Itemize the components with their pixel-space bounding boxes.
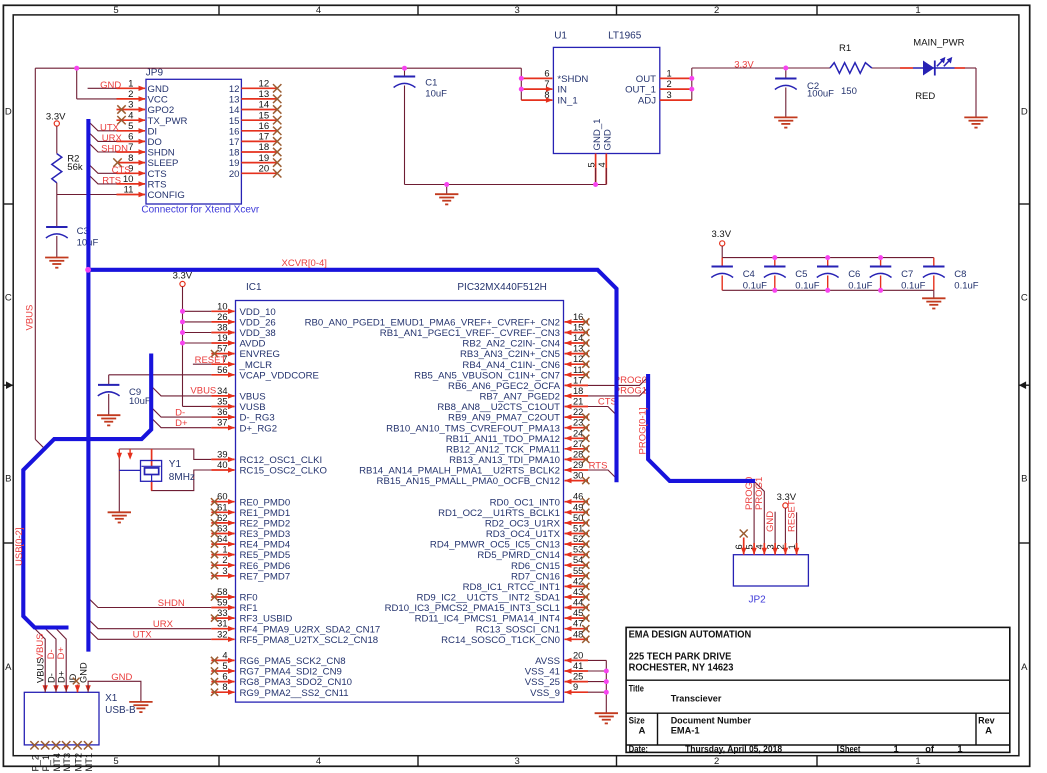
svg-text:56: 56 [217,365,227,375]
svg-text:59: 59 [217,598,227,608]
svg-text:2: 2 [714,756,719,767]
svg-text:RTS: RTS [102,176,121,187]
svg-text:1: 1 [667,68,672,78]
svg-text:RG7_PMA4_SDI2_CN9: RG7_PMA4_SDI2_CN9 [240,667,342,678]
svg-text:RD3_OC4_U1TX: RD3_OC4_U1TX [486,529,561,540]
svg-text:P_2: P_2 [30,755,40,772]
svg-text:34: 34 [217,386,227,396]
svg-text:6: 6 [222,672,227,682]
svg-text:3.3V: 3.3V [734,60,754,71]
svg-text:RF3_USBID: RF3_USBID [240,614,293,625]
svg-text:RC13_SOSCI_CN1: RC13_SOSCI_CN1 [476,624,560,635]
svg-text:11: 11 [573,365,583,375]
svg-text:RB8_AN8__U2CTS_C1OUT: RB8_AN8__U2CTS_C1OUT [437,402,560,413]
svg-text:5: 5 [744,544,754,549]
svg-text:15: 15 [573,323,583,333]
svg-text:RB11_AN11_TDO_PMA12: RB11_AN11_TDO_PMA12 [446,434,560,445]
svg-text:TX_PWR: TX_PWR [148,116,188,127]
svg-text:RE4_PMD4: RE4_PMD4 [240,540,291,551]
svg-text:C1: C1 [425,78,437,89]
svg-text:PROG0: PROG0 [614,375,647,386]
svg-text:OUT_1: OUT_1 [625,85,656,96]
svg-text:AVDD: AVDD [240,339,266,350]
svg-text:IC1: IC1 [246,282,262,293]
svg-text:0.1uF: 0.1uF [743,281,767,292]
svg-text:43: 43 [573,587,583,597]
svg-text:RE1_PMD1: RE1_PMD1 [240,508,291,519]
svg-text:RC12_OSC1_CLKI: RC12_OSC1_CLKI [240,455,323,466]
svg-text:54: 54 [573,555,583,565]
svg-text:RB4_AN4_C1IN-_CN6: RB4_AN4_C1IN-_CN6 [462,360,560,371]
svg-text:URX: URX [102,133,123,144]
svg-text:20: 20 [259,164,270,175]
svg-text:RD1_OC2__U1RTS_BCLK1: RD1_OC2__U1RTS_BCLK1 [438,508,560,519]
svg-text:40: 40 [217,460,227,470]
svg-text:P_1: P_1 [41,755,51,772]
svg-text:28: 28 [573,449,583,459]
svg-text:RD5_PMRD_CN14: RD5_PMRD_CN14 [477,550,560,561]
svg-text:RB14_AN14_PMALH_PMA1__U2RTS_BC: RB14_AN14_PMALH_PMA1__U2RTS_BCLK2 [359,466,560,477]
svg-text:PROG[0-1]: PROG[0-1] [637,408,648,455]
svg-text:URX: URX [153,619,174,630]
svg-text:RB12_AN12_TCK_PMA11: RB12_AN12_TCK_PMA11 [446,444,560,455]
svg-text:D-: D- [46,673,56,683]
svg-text:4: 4 [597,162,607,167]
svg-text:Thursday, April 05, 2018: Thursday, April 05, 2018 [685,744,782,754]
svg-text:VUSB: VUSB [240,402,266,413]
svg-text:MT3: MT3 [62,753,72,772]
svg-text:VBUS: VBUS [35,633,46,659]
svg-text:D-_RG3: D-_RG3 [240,413,275,424]
svg-text:DI: DI [148,126,158,137]
svg-text:VBUS: VBUS [190,386,216,397]
svg-text:3.3V: 3.3V [46,111,66,122]
svg-text:5: 5 [113,5,118,16]
svg-text:2: 2 [667,79,672,89]
svg-text:MAIN_PWR: MAIN_PWR [913,38,964,49]
svg-text:JP2: JP2 [749,594,767,605]
svg-text:62: 62 [217,513,227,523]
svg-text:PROG1: PROG1 [614,385,647,396]
svg-text:MT1: MT1 [84,753,94,772]
svg-text:D: D [1021,106,1028,117]
svg-text:2: 2 [776,544,786,549]
svg-text:RD8_IC1_RTCC_INT1: RD8_IC1_RTCC_INT1 [463,582,560,593]
svg-text:RG8_PMA3_SDO2_CN10: RG8_PMA3_SDO2_CN10 [240,677,353,688]
svg-text:58: 58 [217,587,227,597]
svg-text:18: 18 [229,148,240,159]
svg-text:*SHDN: *SHDN [557,74,588,85]
svg-text:61: 61 [217,502,227,512]
svg-text:8: 8 [128,153,133,164]
svg-text:D+: D+ [57,671,67,683]
svg-text:8: 8 [222,682,227,692]
svg-text:SHDN: SHDN [101,144,128,155]
svg-text:RB6_AN6_PGEC2_OCFA: RB6_AN6_PGEC2_OCFA [448,381,561,392]
svg-text:38: 38 [217,323,227,333]
svg-text:Sheet: Sheet [840,744,861,754]
svg-text:C4: C4 [743,269,755,280]
svg-text:48: 48 [573,629,583,639]
svg-text:56k: 56k [67,162,83,173]
svg-text:RD2_OC3_U1RX: RD2_OC3_U1RX [485,519,561,530]
svg-text:31: 31 [217,619,227,629]
svg-text:13: 13 [229,95,240,106]
svg-text:RE0_PMD0: RE0_PMD0 [240,497,291,508]
svg-text:EMA-1: EMA-1 [671,725,701,736]
svg-text:RB0_AN0_PGED1_EMUD1_PMA6_VREF+: RB0_AN0_PGED1_EMUD1_PMA6_VREF+_CVREF+_CN… [305,318,560,329]
svg-text:VBUS: VBUS [240,392,266,403]
svg-text:1: 1 [128,79,133,90]
svg-text:5: 5 [222,661,227,671]
svg-text:RG6_PMA5_SCK2_CN8: RG6_PMA5_SCK2_CN8 [240,656,346,667]
svg-text:GND: GND [765,511,776,532]
svg-text:46: 46 [573,492,583,502]
svg-text:60: 60 [217,492,227,502]
svg-text:CTS: CTS [148,169,167,180]
svg-text:15: 15 [259,110,270,121]
svg-text:5: 5 [113,756,118,767]
svg-text:1: 1 [787,544,797,549]
svg-text:D-: D- [175,408,185,419]
svg-text:VCAP_VDDCORE: VCAP_VDDCORE [240,370,319,381]
svg-text:RESET: RESET [787,500,798,532]
svg-text:4: 4 [222,650,227,660]
svg-text:RE2_PMD2: RE2_PMD2 [240,519,291,530]
svg-text:10: 10 [217,301,227,311]
svg-text:32: 32 [217,629,227,639]
svg-text:13: 13 [573,344,583,354]
svg-text:10uF: 10uF [129,396,151,407]
svg-text:37: 37 [217,418,227,428]
svg-text:RB13_AN13_TDI_PMA10: RB13_AN13_TDI_PMA10 [449,455,560,466]
svg-text:14: 14 [259,100,270,111]
svg-text:MT4: MT4 [52,753,62,772]
svg-text:Y1: Y1 [169,459,182,470]
svg-text:VDD_10: VDD_10 [240,307,276,318]
svg-text:41: 41 [573,661,583,671]
svg-text:100uF: 100uF [807,89,834,100]
svg-text:RF5_PMA8_U2TX_SCL2_CN18: RF5_PMA8_U2TX_SCL2_CN18 [240,635,379,646]
svg-text:44: 44 [573,598,583,608]
svg-text:225 TECH PARK DRIVE: 225 TECH PARK DRIVE [629,652,732,663]
svg-text:RD11_IC4_PMCS1_PMA14_INT4: RD11_IC4_PMCS1_PMA14_INT4 [415,614,561,625]
svg-text:SHDN: SHDN [148,148,175,159]
svg-text:6: 6 [544,68,549,78]
svg-text:C: C [5,292,12,303]
svg-text:GND: GND [79,662,89,683]
svg-text:RB2_AN2_C2IN-_CN4: RB2_AN2_C2IN-_CN4 [462,339,560,350]
svg-text:D: D [5,106,12,117]
svg-text:0.1uF: 0.1uF [795,281,819,292]
svg-text:8MHz: 8MHz [169,472,195,483]
svg-text:1: 1 [915,756,920,767]
svg-text:RB10_AN10_TMS_CVREFOUT_PMA13: RB10_AN10_TMS_CVREFOUT_PMA13 [386,423,560,434]
svg-text:IN: IN [557,85,567,96]
svg-text:49: 49 [573,502,583,512]
svg-text:UTX: UTX [133,630,153,641]
svg-text:9: 9 [573,682,578,692]
svg-text:39: 39 [217,449,227,459]
svg-text:14: 14 [573,333,583,343]
svg-text:5: 5 [128,121,133,132]
svg-text:4: 4 [755,544,765,549]
svg-text:A: A [5,662,12,673]
svg-text:CONFIG: CONFIG [148,190,185,201]
svg-text:23: 23 [573,418,583,428]
svg-text:RE3_PMD3: RE3_PMD3 [240,529,291,540]
svg-text:LT1965: LT1965 [608,31,642,42]
svg-text:25: 25 [573,672,583,682]
svg-text:RD7_CN16: RD7_CN16 [511,571,560,582]
svg-text:20: 20 [229,169,240,180]
svg-text:42: 42 [573,576,583,586]
svg-text:0.1uF: 0.1uF [901,281,925,292]
svg-text:RD10_IC3_PMCS2_PMA15_INT3_SCL1: RD10_IC3_PMCS2_PMA15_INT3_SCL1 [385,603,560,614]
svg-text:ROCHESTER, NY 14623: ROCHESTER, NY 14623 [629,663,734,674]
svg-text:27: 27 [573,439,583,449]
svg-text:17: 17 [573,375,583,385]
svg-text:64: 64 [217,534,227,544]
svg-text:17: 17 [259,132,270,143]
svg-text:RC15_OSC2_CLKO: RC15_OSC2_CLKO [240,466,327,477]
svg-text:CTS: CTS [112,165,131,176]
svg-text:11: 11 [124,185,134,196]
svg-text:5: 5 [587,162,597,167]
svg-text:D+: D+ [175,418,188,429]
svg-text:PIC32MX440F512H: PIC32MX440F512H [457,282,547,293]
svg-text:MT2: MT2 [73,753,83,772]
svg-text:6: 6 [734,544,744,549]
svg-text:150: 150 [841,86,857,97]
svg-text:16: 16 [573,312,583,322]
svg-text:ENVREG: ENVREG [240,349,281,360]
svg-text:AVSS: AVSS [535,656,560,667]
svg-text:2: 2 [714,5,719,16]
svg-text:C: C [1021,292,1028,303]
svg-text:18: 18 [573,386,583,396]
svg-text:B: B [5,473,11,484]
svg-text:EMA DESIGN AUTOMATION: EMA DESIGN AUTOMATION [629,630,752,641]
svg-text:15: 15 [229,116,240,127]
svg-text:C8: C8 [954,269,966,280]
svg-text:47: 47 [573,619,583,629]
svg-text:RESET: RESET [195,355,227,366]
svg-text:35: 35 [217,397,227,407]
svg-text:3.3V: 3.3V [173,271,193,282]
svg-text:A: A [985,725,992,736]
svg-text:2: 2 [128,89,133,100]
svg-text:RC14_SOSCO_T1CK_CN0: RC14_SOSCO_T1CK_CN0 [441,635,560,646]
svg-text:RE6_PMD6: RE6_PMD6 [240,561,291,572]
svg-text:RF0: RF0 [240,593,258,604]
svg-text:JP9: JP9 [146,68,164,79]
svg-text:A: A [1021,662,1028,673]
svg-text:RB7_AN7_PGED2: RB7_AN7_PGED2 [479,392,560,403]
svg-text:50: 50 [573,513,583,523]
svg-text:16: 16 [259,121,270,132]
svg-text:Transciever: Transciever [671,694,722,705]
svg-text:21: 21 [573,397,583,407]
svg-text:Connector for Xtend Xcevr: Connector for Xtend Xcevr [141,205,260,216]
svg-text:22: 22 [573,407,583,417]
svg-text:1: 1 [894,744,899,754]
svg-text:DO: DO [148,137,162,148]
svg-text:7: 7 [128,142,133,153]
svg-text:VSS_41: VSS_41 [525,667,560,678]
svg-text:0.1uF: 0.1uF [954,281,978,292]
svg-text:RF1: RF1 [240,603,258,614]
svg-text:13: 13 [259,89,270,100]
svg-text:OUT: OUT [636,74,656,85]
svg-text:VBUS: VBUS [36,658,46,683]
svg-text:RTS: RTS [148,180,167,191]
svg-text:X1: X1 [105,693,118,704]
svg-text:VDD_26: VDD_26 [240,318,276,329]
svg-text:RF4_PMA9_U2RX_SDA2_CN17: RF4_PMA9_U2RX_SDA2_CN17 [240,624,381,635]
svg-text:1: 1 [957,744,962,754]
svg-text:1: 1 [915,5,920,16]
svg-text:RD4_PMWR_OC5_IC5_CN13: RD4_PMWR_OC5_IC5_CN13 [430,540,560,551]
svg-text:RB3_AN3_C2IN+_CN5: RB3_AN3_C2IN+_CN5 [460,349,560,360]
svg-text:6: 6 [128,132,133,143]
svg-text:RB5_AN5_VBUSON_C1IN+_CN7: RB5_AN5_VBUSON_C1IN+_CN7 [414,370,560,381]
svg-text:RE7_PMD7: RE7_PMD7 [240,571,291,582]
svg-text:A: A [639,725,646,736]
svg-text:U1: U1 [554,31,567,42]
svg-text:VSS_9: VSS_9 [530,688,560,699]
svg-text:4: 4 [128,110,134,121]
svg-text:3: 3 [222,566,227,576]
svg-text:3: 3 [515,756,520,767]
svg-text:_MCLR: _MCLR [239,360,273,371]
svg-text:4: 4 [316,756,321,767]
svg-text:12: 12 [259,79,270,90]
svg-text:30: 30 [573,471,583,481]
svg-text:3: 3 [515,5,520,16]
svg-text:USB[0-2]: USB[0-2] [14,527,25,566]
svg-text:33: 33 [217,608,227,618]
svg-text:XCVR[0-4]: XCVR[0-4] [282,258,327,269]
svg-text:VBUS: VBUS [25,305,36,331]
svg-text:26: 26 [217,312,227,322]
svg-text:GPO2: GPO2 [148,105,175,116]
svg-text:RB9_AN9_PMA7_C2OUT: RB9_AN9_PMA7_C2OUT [448,413,560,424]
svg-text:RD0_OC1_INT0: RD0_OC1_INT0 [490,497,560,508]
svg-text:19: 19 [217,333,227,343]
svg-text:PROG1: PROG1 [754,477,765,510]
svg-text:45: 45 [573,608,583,618]
svg-text:UTX: UTX [100,122,120,133]
svg-text:63: 63 [217,524,227,534]
svg-text:VSS_25: VSS_25 [525,677,560,688]
svg-text:17: 17 [229,137,240,148]
svg-text:1: 1 [222,545,227,555]
svg-text:51: 51 [573,524,583,534]
svg-text:VCC: VCC [148,95,168,106]
svg-text:3.3V: 3.3V [712,229,732,240]
svg-text:RB15_AN15_PMALL_PMA0_OCFB_CN12: RB15_AN15_PMALL_PMA0_OCFB_CN12 [377,476,560,487]
svg-text:RTS: RTS [589,460,608,471]
svg-text:Title: Title [629,683,644,694]
svg-text:D+_RG2: D+_RG2 [240,423,278,434]
svg-text:GND: GND [148,84,169,95]
svg-text:C6: C6 [848,269,860,280]
svg-text:SLEEP: SLEEP [148,158,179,169]
svg-text:C5: C5 [795,269,807,280]
svg-text:USB-B: USB-B [105,705,136,716]
svg-text:19: 19 [259,153,270,164]
svg-text:3: 3 [765,544,775,549]
svg-text:24: 24 [573,428,583,438]
svg-text:18: 18 [259,142,270,153]
svg-text:B: B [1021,473,1027,484]
svg-text:12: 12 [573,354,583,364]
svg-text:C7: C7 [901,269,913,280]
svg-text:3: 3 [667,90,672,100]
svg-text:GND: GND [603,129,614,150]
svg-text:CTS: CTS [598,396,617,407]
svg-text:2: 2 [222,555,227,565]
svg-text:RD6_CN15: RD6_CN15 [511,561,560,572]
svg-text:Date:: Date: [629,744,648,754]
svg-text:14: 14 [229,105,240,116]
svg-text:RG9_PMA2__SS2_CN11: RG9_PMA2__SS2_CN11 [240,688,349,699]
svg-text:52: 52 [573,534,583,544]
svg-text:D+: D+ [56,646,67,659]
svg-text:RD9_IC2__U1CTS__INT2_SDA1: RD9_IC2__U1CTS__INT2_SDA1 [417,593,560,604]
svg-text:of: of [925,744,935,754]
svg-text:36: 36 [217,407,227,417]
svg-text:3: 3 [128,100,133,111]
svg-text:ADJ: ADJ [638,96,656,107]
svg-text:16: 16 [229,126,240,137]
svg-text:12: 12 [229,84,240,95]
svg-text:4: 4 [316,5,321,16]
svg-text:SHDN: SHDN [158,598,185,609]
svg-text:RB1_AN1_PGEC1_VREF-_CVREF-_CN3: RB1_AN1_PGEC1_VREF-_CVREF-_CN3 [380,328,560,339]
svg-text:GND: GND [111,672,132,683]
svg-text:20: 20 [573,650,583,660]
svg-text:GND_1: GND_1 [592,119,603,151]
svg-text:RE5_PMD5: RE5_PMD5 [240,550,291,561]
svg-text:R1: R1 [839,43,851,54]
svg-text:GND: GND [100,80,121,91]
svg-text:53: 53 [573,545,583,555]
svg-text:IN_1: IN_1 [557,96,577,107]
svg-text:VDD_38: VDD_38 [240,328,276,339]
svg-text:RED: RED [915,91,935,102]
svg-text:29: 29 [573,460,583,470]
svg-text:57: 57 [217,344,227,354]
svg-text:55: 55 [573,566,583,576]
svg-text:10uF: 10uF [425,89,447,100]
svg-text:0.1uF: 0.1uF [848,281,872,292]
svg-text:19: 19 [229,158,240,169]
